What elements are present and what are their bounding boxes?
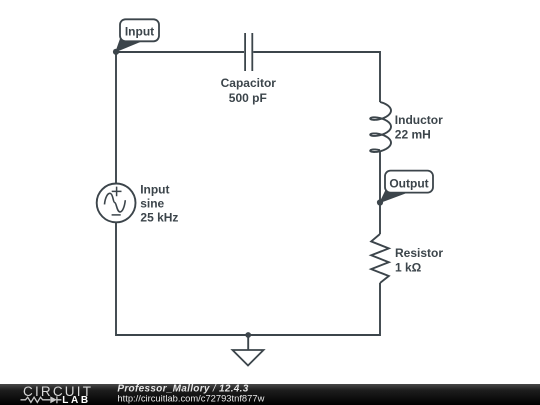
node flag Output bubble — [385, 171, 433, 193]
footer url line — [117, 393, 264, 404]
capacitor C1 label — [221, 76, 277, 105]
svg-text:500 pF: 500 pF — [229, 91, 267, 105]
svg-text:Inductor: Inductor — [395, 113, 443, 127]
node Output junction dot — [377, 199, 383, 205]
svg-text:Input: Input — [125, 24, 154, 38]
svg-text:Output: Output — [389, 176, 428, 190]
node flag Output tail — [380, 190, 408, 203]
svg-text:Input: Input — [140, 183, 169, 197]
node flag Input bubble — [120, 19, 159, 41]
voltage source V1 sine wave — [105, 193, 126, 212]
node flag Input tail — [116, 39, 142, 52]
wire top-right: capacitor to corner down to inductor — [253, 52, 380, 102]
capacitor C1 plates — [245, 33, 252, 71]
node Input junction dot — [113, 49, 119, 55]
ground triangle — [233, 350, 264, 366]
svg-text:Capacitor: Capacitor — [221, 76, 277, 90]
voltage source V1 minus sign — [112, 214, 121, 216]
footer bar — [0, 384, 540, 405]
resistor R1 zigzag — [371, 234, 389, 283]
logo LAB text — [62, 395, 90, 405]
svg-text:22 mH: 22 mH — [395, 128, 431, 142]
svg-text:sine: sine — [140, 197, 164, 211]
voltage source V1 circle — [97, 184, 136, 223]
ground junction dot — [245, 332, 251, 338]
svg-text:Resistor: Resistor — [395, 246, 443, 260]
logo CIRCUIT text — [23, 384, 93, 399]
resistor R1 label — [395, 246, 443, 275]
wire top-left: capacitor to Input corner down to source — [116, 52, 244, 184]
footer attribution line — [117, 383, 248, 394]
wire bottom loop: source bottom to ground run to resistor bottom — [116, 222, 380, 335]
svg-text:http://circuitlab.com/c72793tn: http://circuitlab.com/c72793tnf877w — [117, 393, 264, 404]
voltage source V1 label — [140, 183, 178, 225]
logo circuit glyph: resistor zigzag wire and diode — [21, 396, 62, 403]
ground stem — [247, 335, 249, 350]
inductor L1 coil — [370, 102, 391, 152]
wire inductor to resistor — [379, 152, 381, 234]
svg-text:1 kΩ: 1 kΩ — [395, 261, 422, 275]
svg-text:LAB: LAB — [62, 395, 90, 405]
svg-text:25 kHz: 25 kHz — [140, 211, 178, 225]
voltage source V1 plus sign — [112, 187, 122, 197]
inductor L1 label — [395, 113, 443, 142]
